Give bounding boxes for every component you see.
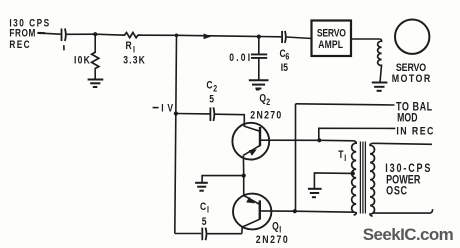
Q2 emitter lead down <box>242 155 244 175</box>
ground (Q2 emitter) <box>195 183 208 191</box>
transistor Q1 2N270 <box>233 194 271 230</box>
wire: IN REC line and drop <box>319 128 396 140</box>
junction at top of left rail <box>175 34 179 38</box>
box: 130-CPS POWER OSC (top line) <box>373 143 432 144</box>
wire: junction to capacitor C6 <box>259 36 281 38</box>
svg-text:I5: I5 <box>281 62 289 74</box>
svg-text:MOTOR: MOTOR <box>392 73 432 85</box>
Q2 emitter (arrow to base, PNP) <box>243 146 260 156</box>
transistor Q2 2N270 <box>232 123 269 160</box>
wire: C6 to servo amplifier box <box>287 37 312 39</box>
svg-text:T: T <box>338 149 343 161</box>
svg-text:2: 2 <box>266 97 270 107</box>
wire: junction down to capacitor 0.01 <box>258 37 260 54</box>
wire: junction down to Q1 <box>243 176 245 196</box>
T1 core lines <box>360 142 365 214</box>
wire: input lead from FROM to coupling capacitor <box>37 32 45 34</box>
resistor 10K (shunt to ground) <box>92 51 99 69</box>
wire: -1V rail to capacitor C2 <box>176 113 210 115</box>
capacitor C1 5 <box>202 228 206 241</box>
svg-text:Q: Q <box>272 220 279 232</box>
node A junction dot <box>93 32 97 36</box>
svg-text:AMPL: AMPL <box>318 39 343 51</box>
ground (below motor coil) <box>372 83 388 91</box>
svg-text:MOD: MOD <box>397 112 417 124</box>
wire: bottom rail from left vertical to C1 <box>175 233 201 235</box>
svg-text:5: 5 <box>209 94 214 106</box>
node: 130 CPS FROM REC input label <box>9 17 50 51</box>
Q2 base lead (to right) <box>260 139 320 141</box>
svg-text:6: 6 <box>285 52 289 62</box>
wire: C2 to Q2 base <box>215 114 260 131</box>
wire: resistor 10K to ground <box>94 69 96 79</box>
wire: R1 to junction at vertical rail <box>141 34 177 36</box>
wire: top wire with signal arrow to 0.01 junction <box>177 35 259 36</box>
svg-text:I0K: I0K <box>74 55 91 67</box>
capacitor (input coupling, value 1) <box>62 29 66 42</box>
wire: coil to ground <box>380 65 382 83</box>
wire: TO BAL line <box>296 104 395 105</box>
svg-text:2: 2 <box>213 84 217 94</box>
Q1 base lead (to right) <box>260 210 295 212</box>
transformer T1 secondary winding <box>370 143 375 216</box>
Q1 base bar <box>259 200 261 219</box>
Q1 emitter (from top, arrow into base, PNP) <box>244 195 260 204</box>
wire: capacitor 0.01 to ground <box>258 58 260 80</box>
svg-text:IN REC: IN REC <box>396 125 434 137</box>
junction dot Q2 emitter / ground / Q1 <box>242 174 246 178</box>
svg-text:IV: IV <box>161 102 177 114</box>
svg-text:3.3K: 3.3K <box>123 55 146 67</box>
wire: Q1 base line to transformer primary bottom <box>295 211 354 212</box>
wire: capacitor to node A <box>65 33 95 35</box>
ground (T1 center tap) <box>308 189 322 197</box>
svg-text:I: I <box>133 44 135 54</box>
box: 130-CPS POWER OSC (bottom line with hook) <box>373 209 433 213</box>
svg-text:I: I <box>207 205 209 215</box>
svg-text:5: 5 <box>202 216 207 228</box>
T1 center tap junction dot <box>351 171 355 175</box>
junction dot at 0.01 capacitor <box>257 35 261 39</box>
wire: emitter junction to ground <box>202 176 244 183</box>
junction dot at Q1 base line <box>293 209 297 213</box>
svg-text:REC: REC <box>9 39 31 51</box>
svg-text:C: C <box>206 79 212 91</box>
wire: Q2 base line to transformer primary top <box>320 139 354 142</box>
stray dash above Q2 <box>256 89 259 91</box>
wire: center tap to ground <box>314 173 352 188</box>
svg-text:0.0I: 0.0I <box>229 52 252 64</box>
wire: servo ampl output to motor coil <box>351 38 380 40</box>
resistor R1 3.3K <box>122 33 142 38</box>
ground (below 0.01) <box>249 80 269 88</box>
arrow (signal direction) <box>204 34 212 40</box>
node -1V junction dot <box>174 111 178 115</box>
servo motor (circle) <box>395 20 429 54</box>
junction dot IN REC tap <box>317 138 321 142</box>
svg-text:R: R <box>126 40 132 52</box>
svg-text:C: C <box>200 201 206 213</box>
wire: C1 to Q1 collector riser <box>207 233 242 235</box>
capacitor C6 15 <box>282 31 286 43</box>
box: SERVO AMPL <box>312 21 352 57</box>
capacitor 0.01 (shunt) <box>251 54 267 58</box>
Q1 collector diagonal down-left <box>242 219 260 234</box>
capacitor C2 5 <box>210 107 214 121</box>
wire: node A down to resistor 10K <box>94 34 96 51</box>
svg-text:Q: Q <box>259 93 266 105</box>
transformer T1 primary winding <box>352 141 357 215</box>
wire: vertical rail x296 (TO BAL down to Q1 base line) <box>295 104 297 211</box>
svg-text:2N270: 2N270 <box>256 234 290 246</box>
svg-text:OSC: OSC <box>386 186 408 198</box>
svg-text:2N270: 2N270 <box>250 110 282 122</box>
watermark SeekIC.com <box>363 225 454 244</box>
inductor (servo motor winding) <box>378 39 382 66</box>
svg-text:SeekIC.com: SeekIC.com <box>363 225 454 244</box>
Q2 base bar <box>259 127 261 146</box>
svg-text:I: I <box>279 225 281 235</box>
svg-text:I: I <box>344 153 346 163</box>
ground (below 10K) <box>88 80 104 88</box>
wire: node A to resistor R1 <box>95 33 121 36</box>
T1 label <box>338 149 346 163</box>
wire: left vertical rail (top wire down to bottom wire) <box>175 35 177 233</box>
